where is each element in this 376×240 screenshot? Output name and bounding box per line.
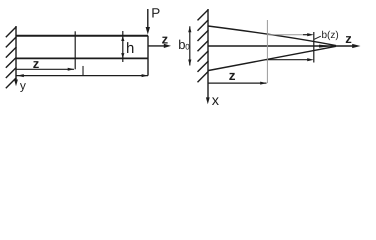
z dim arrow right (right diagram)	[260, 82, 267, 85]
l dimension line	[16, 75, 148, 77]
h dimension line	[122, 31, 124, 62]
x axis arrowhead	[206, 97, 210, 104]
beam bottom edge	[16, 57, 148, 59]
svg-text:z: z	[345, 31, 352, 46]
svg-text:z: z	[229, 68, 236, 83]
top transfer arrowhead	[307, 33, 314, 36]
y axis line	[15, 77, 17, 81]
svg-text:P: P	[151, 6, 160, 21]
b0 arrow up	[188, 26, 191, 32]
section line at z	[74, 31, 76, 69]
z dimension line	[16, 68, 74, 70]
wall hatching right	[198, 10, 209, 21]
y axis arrowhead	[14, 80, 18, 87]
z axis end arrowhead (right diagram)	[352, 44, 360, 48]
bottom edge of triangle	[209, 46, 337, 70]
bottom transfer line	[266, 59, 308, 61]
svg-text:z: z	[33, 56, 40, 71]
l dim arrow left	[17, 74, 24, 77]
P arrowhead	[146, 27, 150, 35]
x axis line	[207, 81, 209, 99]
svg-text:l: l	[82, 64, 85, 78]
wall (right diagram)	[207, 9, 209, 81]
apex wedge arrowhead	[319, 45, 333, 48]
svg-text:y: y	[20, 79, 26, 93]
z dim line (bottom right diagram)	[208, 82, 267, 84]
h dim arrow up	[121, 36, 124, 41]
wall hatching left	[6, 27, 17, 38]
svg-text:b(z): b(z)	[322, 30, 339, 41]
h dim arrow down	[121, 53, 124, 58]
l dim arrow right	[142, 74, 148, 77]
gray section line at z	[266, 20, 268, 83]
top transfer line black part	[303, 34, 308, 36]
b(z) leader	[314, 36, 321, 39]
svg-text:x: x	[212, 93, 220, 109]
z axis centerline	[208, 45, 355, 47]
z axis arrowhead (left)	[164, 44, 171, 48]
z dim arrow right	[68, 68, 75, 71]
b(z) vertical line	[313, 32, 315, 63]
svg-text:h: h	[126, 40, 134, 57]
top transfer line gray part	[267, 34, 303, 36]
b0 dimension line	[189, 26, 191, 65]
b0 arrow down	[188, 60, 191, 66]
force P line	[147, 9, 149, 29]
top edge of triangle	[208, 26, 336, 46]
svg-text:z: z	[162, 32, 169, 47]
z axis line (left, free end)	[148, 45, 166, 47]
svg-text:0: 0	[185, 42, 190, 51]
bottom transfer arrowhead	[307, 58, 314, 61]
beam free end	[147, 36, 149, 76]
beam top edge	[16, 35, 148, 37]
wall (left diagram)	[15, 26, 17, 77]
